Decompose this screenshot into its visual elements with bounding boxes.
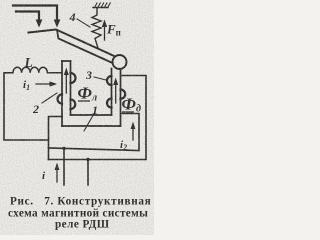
wire feeder down right xyxy=(87,160,89,186)
flux arrow in right pole xyxy=(115,84,117,103)
arrow down on lower feed wire xyxy=(36,20,43,28)
wire i2 outer / yoke arm xyxy=(49,76,147,160)
flux arrow in left pole xyxy=(65,74,67,93)
pivot circle xyxy=(113,55,127,69)
right core pole xyxy=(111,69,113,116)
current arrow i xyxy=(56,169,58,182)
wire lower feed xyxy=(16,12,39,23)
armature 4 (bar) xyxy=(29,30,114,56)
current arrow i2 xyxy=(132,128,134,140)
spring support hatch xyxy=(93,7,108,9)
label 4 leader xyxy=(77,19,90,27)
force arrow Fп xyxy=(104,25,106,40)
left core pole xyxy=(62,60,71,62)
junction at i feeder xyxy=(62,147,65,150)
wire left side (i1 loop) xyxy=(4,73,49,140)
coil L xyxy=(8,67,62,73)
spring xyxy=(92,8,101,48)
label 2 leader xyxy=(42,93,57,103)
arrow down on upper feed wire xyxy=(54,20,61,28)
yoke 1 (U-core bottom) xyxy=(71,114,112,116)
winding 3 turns on right pole xyxy=(107,76,112,85)
label 1 leader xyxy=(84,112,95,131)
wire from winding 2 bottom xyxy=(49,117,63,160)
winding 2 turns on left pole xyxy=(71,73,76,83)
junction at right feeder xyxy=(86,158,89,161)
current arrow i1 xyxy=(36,83,51,85)
label 3 leader xyxy=(94,77,106,80)
wire upper feed xyxy=(13,6,57,23)
wire feeder down left xyxy=(63,148,65,185)
wire i2 inner xyxy=(49,114,140,151)
